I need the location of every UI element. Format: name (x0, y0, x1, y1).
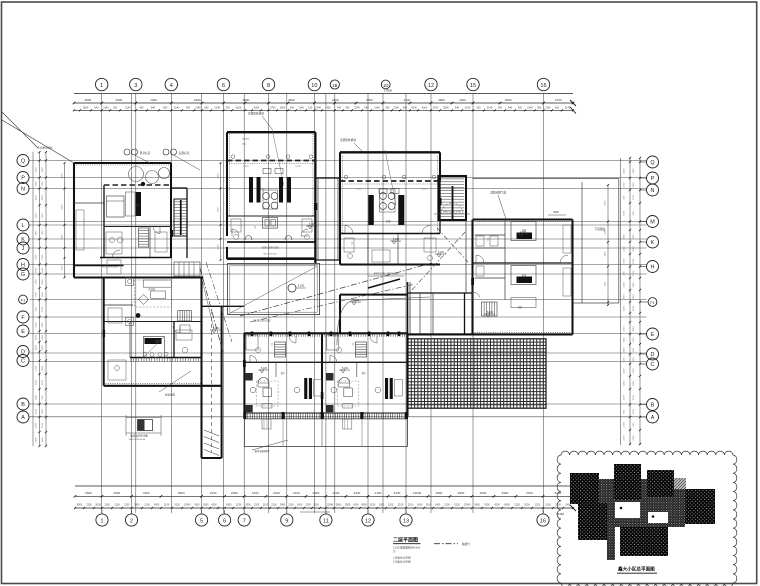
svg-text:4200: 4200 (459, 98, 466, 102)
svg-text:6900: 6900 (361, 504, 367, 507)
site block b4 (685, 489, 715, 524)
svg-text:卫: 卫 (254, 226, 257, 229)
svg-text:4200: 4200 (143, 491, 150, 495)
in-plan mini dimension rows (254, 211, 470, 323)
svg-text:2400: 2400 (313, 491, 320, 495)
unit U4 beds and sofa (511, 222, 536, 308)
svg-text:卫生间排气道: 卫生间排气道 (490, 191, 506, 195)
courtyard C2 walls and path (337, 295, 430, 345)
svg-text:H-0.020 H4.050: H-0.020 H4.050 (102, 266, 118, 268)
svg-text:2100: 2100 (271, 504, 277, 507)
ramp corridor walls (202, 306, 245, 458)
svg-text:1800: 1800 (42, 437, 44, 443)
svg-text:2.内墙均为200厚: 2.内墙均为200厚 (393, 560, 412, 564)
stair tower between U1 and U2 (171, 188, 187, 258)
svg-text:4500: 4500 (366, 98, 373, 102)
svg-text:2140: 2140 (527, 107, 533, 110)
svg-text:5100: 5100 (36, 408, 38, 414)
svg-text:2100: 2100 (624, 435, 626, 441)
svg-text:2140: 2140 (174, 107, 180, 110)
svg-text:F1: F1 (650, 301, 654, 305)
svg-text:1500: 1500 (624, 337, 626, 343)
svg-text:1500: 1500 (42, 167, 44, 173)
svg-text:7100: 7100 (42, 230, 44, 236)
svg-text:2100: 2100 (633, 435, 635, 441)
svg-text:650: 650 (385, 107, 390, 110)
svg-text:5100: 5100 (633, 305, 635, 311)
svg-text:2100: 2100 (144, 504, 150, 507)
svg-text:900: 900 (624, 271, 626, 275)
site block b7 (620, 527, 668, 556)
svg-text:1200: 1200 (42, 306, 44, 312)
svg-text:2140: 2140 (195, 107, 201, 110)
svg-text:2400: 2400 (42, 334, 44, 340)
unit U4 stair (482, 302, 498, 316)
svg-text:2100: 2100 (263, 504, 269, 507)
terrace T1 outline (228, 264, 320, 315)
svg-text:卫: 卫 (351, 242, 354, 245)
unit U1 bath fixtures (106, 232, 167, 274)
svg-text:1500: 1500 (624, 294, 626, 300)
svg-text:2660: 2660 (85, 491, 92, 495)
svg-text:6000: 6000 (254, 107, 260, 110)
svg-text:2400: 2400 (134, 504, 140, 507)
svg-text:5.100: 5.100 (353, 299, 360, 302)
svg-text:1200: 1200 (633, 270, 635, 276)
svg-text:2000: 2000 (524, 504, 530, 507)
svg-text:350 1200 350: 350 1200 350 (263, 254, 277, 256)
svg-text:空调室外机位: 空调室外机位 (340, 138, 356, 142)
svg-text:1500: 1500 (42, 267, 44, 273)
svg-text:A-1b9c: A-1b9c (243, 138, 251, 141)
svg-text:450: 450 (139, 107, 144, 110)
svg-text:2700: 2700 (433, 107, 439, 110)
svg-text:6: 6 (222, 83, 225, 89)
svg-text:2140: 2140 (465, 107, 471, 110)
svg-text:2700: 2700 (555, 98, 562, 102)
svg-text:4200: 4200 (411, 107, 417, 110)
unit U5 sofa and bed (126, 278, 191, 358)
svg-text:2100: 2100 (633, 395, 635, 401)
svg-text:N: N (651, 188, 655, 194)
svg-text:5.125: 5.125 (356, 189, 362, 191)
svg-text:1800: 1800 (633, 380, 635, 386)
svg-text:1800: 1800 (42, 195, 44, 201)
svg-text:J: J (22, 246, 25, 252)
svg-text:5.125: 5.125 (421, 189, 427, 191)
svg-text:2600: 2600 (218, 173, 220, 179)
svg-text:5130: 5130 (454, 504, 460, 507)
svg-text:1500: 1500 (633, 357, 635, 363)
svg-text:2100: 2100 (288, 504, 294, 507)
svg-text:2: 2 (130, 518, 133, 524)
svg-text:2900: 2900 (458, 491, 465, 495)
svg-text:卧室: 卧室 (522, 228, 527, 232)
bottom twin unit left interior (245, 335, 321, 429)
site block b1 (570, 473, 599, 504)
svg-text:2140: 2140 (393, 107, 399, 110)
svg-text:2800: 2800 (83, 107, 89, 110)
svg-text:950: 950 (364, 107, 369, 110)
svg-text:2400: 2400 (417, 504, 423, 507)
svg-text:5.100: 5.100 (342, 367, 349, 370)
svg-text:1500: 1500 (36, 422, 38, 428)
svg-text:2140: 2140 (487, 107, 493, 110)
svg-text:2900: 2900 (484, 504, 490, 507)
svg-text:A: A (21, 415, 25, 421)
svg-text:900: 900 (42, 395, 44, 399)
svg-text:2100: 2100 (404, 98, 411, 102)
svg-text:1.外墙均为250厚: 1.外墙均为250厚 (393, 555, 412, 559)
svg-text:2140: 2140 (103, 107, 109, 110)
svg-text:2400: 2400 (435, 504, 441, 507)
svg-text:900: 900 (163, 107, 168, 110)
unit U5 deck edge ticks (131, 358, 201, 362)
svg-text:卫: 卫 (487, 238, 490, 241)
svg-text:450: 450 (498, 107, 503, 110)
svg-text:16: 16 (540, 83, 546, 89)
svg-text:4200: 4200 (633, 246, 635, 252)
svg-text:2150: 2150 (370, 504, 376, 507)
svg-text:注:: 注: (393, 549, 396, 553)
svg-text:2150: 2150 (210, 491, 217, 495)
svg-text:2100: 2100 (124, 504, 130, 507)
svg-text:950: 950 (186, 107, 191, 110)
svg-text:下层露台: 下层露台 (595, 227, 606, 231)
svg-text:2140: 2140 (315, 107, 321, 110)
label over U2 (248, 112, 272, 130)
svg-text:1200: 1200 (624, 326, 626, 332)
label green roof (102, 266, 191, 396)
svg-text:6000: 6000 (422, 107, 428, 110)
svg-text:2000: 2000 (95, 504, 101, 507)
svg-text:2100: 2100 (332, 98, 339, 102)
svg-text:2100: 2100 (42, 213, 44, 219)
svg-text:卫: 卫 (271, 343, 274, 346)
svg-text:E: E (651, 332, 655, 338)
svg-text:5.100: 5.100 (298, 284, 305, 288)
svg-text:室外花园地坪: 室外花园地坪 (254, 449, 270, 453)
svg-text:2100: 2100 (333, 491, 340, 495)
svg-text:2100: 2100 (36, 254, 38, 260)
svg-text:15: 15 (470, 83, 476, 89)
svg-text:2000: 2000 (231, 491, 238, 495)
svg-text:2100: 2100 (624, 395, 626, 401)
svg-text:940: 940 (337, 107, 342, 110)
svg-text:650: 650 (403, 107, 408, 110)
svg-text:3: 3 (134, 83, 137, 89)
svg-text:4500: 4500 (438, 98, 445, 102)
svg-text:7100: 7100 (633, 409, 635, 415)
svg-text:1500: 1500 (633, 282, 635, 288)
svg-text:1800: 1800 (624, 234, 626, 240)
svg-text:1500: 1500 (42, 322, 44, 328)
svg-text:1: 1 (101, 518, 104, 524)
svg-text:5.100: 5.100 (438, 251, 445, 254)
svg-text:2400: 2400 (624, 347, 626, 353)
svg-text:5130: 5130 (313, 504, 319, 507)
svg-text:1300: 1300 (150, 98, 157, 102)
svg-text:客厅: 客厅 (362, 371, 367, 375)
svg-text:K: K (651, 240, 655, 246)
svg-text:4200: 4200 (36, 345, 38, 351)
svg-text:4200: 4200 (624, 380, 626, 386)
corridor between U2 and U3 (316, 178, 342, 260)
svg-text:卧室标高: 卧室标高 (140, 151, 151, 155)
svg-text:D: D (651, 352, 655, 358)
stairwell S1 (439, 176, 467, 220)
svg-text:空调室外机位: 空调室外机位 (248, 112, 264, 116)
svg-text:7100: 7100 (633, 194, 635, 200)
svg-text:2400 1300 2700: 2400 1300 2700 (443, 211, 462, 214)
svg-text:1: 1 (100, 83, 103, 89)
label lower terrace (595, 227, 606, 231)
svg-text:900: 900 (633, 211, 635, 215)
svg-text:4200: 4200 (36, 437, 38, 443)
svg-text:650: 650 (226, 107, 231, 110)
svg-text:2100: 2100 (633, 368, 635, 374)
unit U1 exterior and interior walls (74, 163, 203, 278)
right dimension column (621, 157, 642, 445)
svg-text:2100: 2100 (444, 504, 450, 507)
svg-text:6900: 6900 (226, 504, 232, 507)
horizontal axis grid lines (30, 161, 647, 417)
svg-text:2100: 2100 (114, 504, 120, 507)
svg-text:2600: 2600 (62, 234, 64, 240)
mini dimension line left of U1 (62, 162, 66, 279)
label below twins (252, 440, 288, 453)
site plan title (617, 566, 657, 574)
unit U1 planting circles (129, 167, 170, 187)
svg-text:1500: 1500 (624, 368, 626, 374)
svg-text:2660: 2660 (194, 504, 200, 507)
right axis bubbles column (640, 156, 659, 423)
site plan courtyards (615, 502, 668, 523)
svg-text:2150: 2150 (236, 504, 242, 507)
svg-text:5100: 5100 (624, 357, 626, 363)
svg-text:轴线号: 轴线号 (462, 542, 470, 546)
bottom dimension chain (74, 486, 576, 516)
svg-text:13: 13 (403, 518, 409, 524)
svg-text:12: 12 (428, 83, 434, 89)
svg-text:2400: 2400 (633, 294, 635, 300)
top axis bubbles row (96, 78, 550, 90)
site plan inset cloud border (557, 451, 737, 586)
svg-text:7100: 7100 (36, 292, 38, 298)
svg-text:2000: 2000 (245, 504, 251, 507)
svg-text:C: C (21, 359, 25, 365)
svg-text:1200: 1200 (104, 504, 110, 507)
unit U3 exterior and interior walls (340, 150, 440, 265)
unit U4 entry annex walls (408, 282, 473, 335)
svg-text:Q: Q (21, 159, 25, 165)
svg-text:900: 900 (633, 347, 635, 351)
unit U5 exterior and interior walls (74, 265, 222, 458)
svg-text:8: 8 (267, 83, 270, 89)
svg-text:9400: 9400 (194, 98, 201, 102)
svg-text:4200: 4200 (211, 504, 217, 507)
level marks (210, 223, 528, 373)
svg-text:2100: 2100 (42, 379, 44, 385)
svg-text:2100: 2100 (42, 422, 44, 428)
svg-text:4200: 4200 (633, 326, 635, 332)
svg-text:2800: 2800 (85, 98, 92, 102)
svg-text:2140: 2140 (374, 107, 380, 110)
svg-text:2140: 2140 (565, 107, 571, 110)
svg-text:950: 950 (537, 107, 542, 110)
svg-text:2660: 2660 (436, 491, 443, 495)
site block b5 center speckle (599, 479, 685, 527)
svg-text:6900: 6900 (502, 491, 509, 495)
bottom twins balcony rail and terrace (243, 412, 408, 447)
svg-text:12: 12 (365, 518, 371, 524)
svg-text:2900: 2900 (553, 210, 559, 214)
svg-text:900: 900 (345, 107, 350, 110)
svg-text:17900: 17900 (384, 89, 392, 93)
svg-text:2100: 2100 (293, 491, 300, 495)
unit U5 fixtures (108, 308, 192, 380)
svg-text:2460: 2460 (605, 251, 607, 257)
unit U2 bath fixtures (231, 219, 312, 239)
svg-text:2100: 2100 (633, 337, 635, 343)
svg-text:150: 150 (308, 107, 313, 110)
svg-text:9: 9 (285, 518, 288, 524)
svg-text:150: 150 (476, 107, 481, 110)
door swing arcs (112, 226, 568, 363)
svg-text:2900: 2900 (113, 491, 120, 495)
svg-text:2140: 2140 (354, 107, 360, 110)
upper roof outline right of U4 (473, 179, 619, 304)
hatched terrace grid (408, 339, 546, 408)
svg-text:2100: 2100 (218, 244, 220, 250)
svg-text:1200: 1200 (36, 365, 38, 371)
svg-text:6900: 6900 (504, 504, 510, 507)
svg-text:2400: 2400 (280, 504, 286, 507)
svg-text:2900: 2900 (345, 504, 351, 507)
svg-text:2100: 2100 (36, 213, 38, 219)
svg-text:5.100: 5.100 (213, 327, 220, 330)
svg-text:11: 11 (323, 518, 329, 524)
svg-text:2100: 2100 (36, 322, 38, 328)
legend block (393, 537, 470, 564)
svg-text:650: 650 (555, 107, 560, 110)
svg-text:W=0.283 F=0.50: W=0.283 F=0.50 (129, 439, 146, 441)
svg-text:900: 900 (633, 422, 635, 426)
svg-text:1200: 1200 (535, 504, 541, 507)
svg-text:B: B (21, 402, 25, 408)
svg-text:卧室: 卧室 (522, 273, 527, 277)
svg-text:2800: 2800 (443, 107, 449, 110)
svg-text:5130: 5130 (394, 491, 401, 495)
svg-text:5100: 5100 (36, 167, 38, 173)
site block strip (607, 527, 615, 560)
svg-text:900: 900 (518, 107, 523, 110)
svg-text:2300: 2300 (62, 173, 64, 179)
svg-text:540: 540 (290, 107, 295, 110)
svg-text:2660: 2660 (474, 504, 480, 507)
svg-text:4200: 4200 (494, 504, 500, 507)
svg-text:2700: 2700 (270, 107, 276, 110)
svg-text:2100: 2100 (36, 279, 38, 285)
svg-text:1800: 1800 (36, 267, 38, 273)
svg-text:2100: 2100 (42, 254, 44, 260)
left dimension column (33, 151, 47, 447)
svg-text:3700: 3700 (218, 207, 220, 213)
svg-text:1500: 1500 (42, 292, 44, 298)
svg-text:5130: 5130 (174, 504, 180, 507)
svg-text:2140: 2140 (125, 107, 131, 110)
svg-text:4: 4 (170, 83, 173, 89)
svg-text:650: 650 (204, 107, 209, 110)
unit U5 stair (178, 311, 192, 321)
svg-text:5.100: 5.100 (487, 311, 494, 314)
svg-text:1200: 1200 (254, 504, 260, 507)
svg-text:4200: 4200 (62, 204, 64, 210)
svg-text:540: 540 (94, 107, 99, 110)
unit U3 furniture bars and appliances (368, 189, 404, 225)
svg-text:12940: 12940 (464, 504, 471, 507)
unit U1 small stair (139, 228, 149, 247)
svg-text:2400: 2400 (354, 491, 361, 495)
svg-text:2100: 2100 (375, 491, 382, 495)
svg-text:2400: 2400 (154, 504, 160, 507)
svg-text:二层平面图: 二层平面图 (393, 537, 418, 544)
svg-text:2140: 2140 (298, 107, 304, 110)
svg-text:1200: 1200 (388, 504, 394, 507)
svg-text:3500: 3500 (115, 98, 122, 102)
svg-text:5.160: 5.160 (393, 238, 400, 241)
svg-text:G: G (21, 272, 25, 278)
svg-text:C: C (651, 362, 655, 368)
svg-text:2100: 2100 (624, 282, 626, 288)
svg-text:6: 6 (223, 518, 226, 524)
svg-text:2150: 2150 (514, 504, 520, 507)
leader garage roof label (2, 112, 74, 163)
svg-text:4500: 4500 (288, 98, 295, 102)
svg-text:3600: 3600 (243, 98, 250, 102)
svg-text:A: A (651, 415, 655, 421)
svg-text:2100: 2100 (398, 504, 404, 507)
svg-text:1:100 建筑面积545.6m²: 1:100 建筑面积545.6m² (393, 546, 420, 550)
svg-text:1500: 1500 (36, 334, 38, 340)
svg-text:2100: 2100 (545, 504, 551, 507)
svg-text:2100: 2100 (408, 504, 414, 507)
svg-text:1D: 1D (383, 83, 388, 88)
room name labels (135, 187, 527, 375)
svg-text:6900: 6900 (178, 491, 185, 495)
svg-text:1200: 1200 (252, 491, 259, 495)
svg-text:2140: 2140 (214, 107, 220, 110)
svg-text:6900: 6900 (77, 504, 83, 507)
svg-text:2900: 2900 (203, 504, 209, 507)
svg-text:衣帽: 衣帽 (386, 219, 391, 223)
svg-text:2100: 2100 (273, 491, 280, 495)
site block hatched small (674, 478, 686, 489)
svg-text:10: 10 (311, 83, 317, 89)
svg-text:100a: 100a (242, 144, 247, 146)
svg-text:2000: 2000 (62, 265, 64, 271)
svg-text:1500: 1500 (633, 258, 635, 264)
svg-text:起居标高: 起居标高 (179, 151, 190, 155)
svg-text:起居: 起居 (518, 305, 523, 309)
unit U1 entry steps (174, 262, 200, 276)
label bubbles over U1 (124, 149, 151, 163)
svg-text:2400: 2400 (36, 394, 38, 400)
dashed reference diagonals (200, 228, 468, 352)
unit U4 bath partitions (466, 220, 505, 293)
bottom twin unit right interior (326, 335, 402, 429)
svg-text:2400: 2400 (297, 504, 303, 507)
